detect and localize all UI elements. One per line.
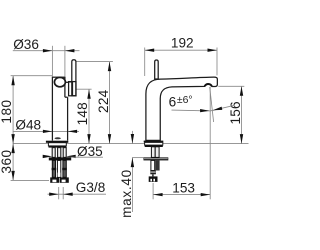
dim 153 [153,87,210,200]
side view: outline [146,77,217,140]
dim G3/8 [48,187,107,199]
dim Ø35 arrows [43,155,53,158]
side view: hoses [151,160,155,170]
front view: lever foot [69,82,76,96]
svg-text:Ø48: Ø48 [15,117,41,132]
side view: aerator bump (thick) [205,84,212,86]
front view: hose fittings [50,177,59,182]
dim 180/360 vertical [11,76,53,181]
svg-text:153: 153 [172,180,195,195]
front view: ball circle [54,77,65,86]
front view: washer [49,157,71,160]
deck line [13,143,249,145]
svg-text:Ø36: Ø36 [13,37,39,52]
front view: hoses below washer [52,160,66,177]
svg-text:360: 360 [0,149,14,173]
front view: shank columns [52,148,66,158]
svg-text:156: 156 [228,101,243,124]
front view: lever bar [72,60,76,96]
dim 224 [76,62,113,144]
dim 156 [218,86,244,143]
tick circle to foot [65,81,69,83]
side view: base [144,141,164,143]
dim max.40 [131,131,144,212]
svg-text:192: 192 [171,35,194,50]
svg-text:max.40: max.40 [119,169,134,218]
svg-text:224: 224 [96,89,111,113]
dim 148 [76,89,91,143]
svg-text:±6°: ±6° [177,95,193,106]
dim 192 [145,48,217,77]
front view: logo blob [55,137,61,139]
svg-text:180: 180 [0,99,14,123]
side view: hex fitting [149,176,158,182]
side view: washer [144,157,169,160]
side view: shank [151,147,159,158]
svg-text:148: 148 [75,102,90,125]
front view: body [52,77,67,141]
Ø35 leader [66,156,103,158]
angle dim 6deg [172,87,235,122]
side view: lever [155,60,159,79]
dim Ø36 line [13,46,80,77]
svg-text:6: 6 [169,94,177,109]
svg-text:Ø35: Ø35 [77,144,103,159]
front view: base [46,141,68,143]
svg-text:G3/8: G3/8 [76,180,105,195]
dim Ø48 [13,130,79,133]
side view: collar [150,171,156,175]
